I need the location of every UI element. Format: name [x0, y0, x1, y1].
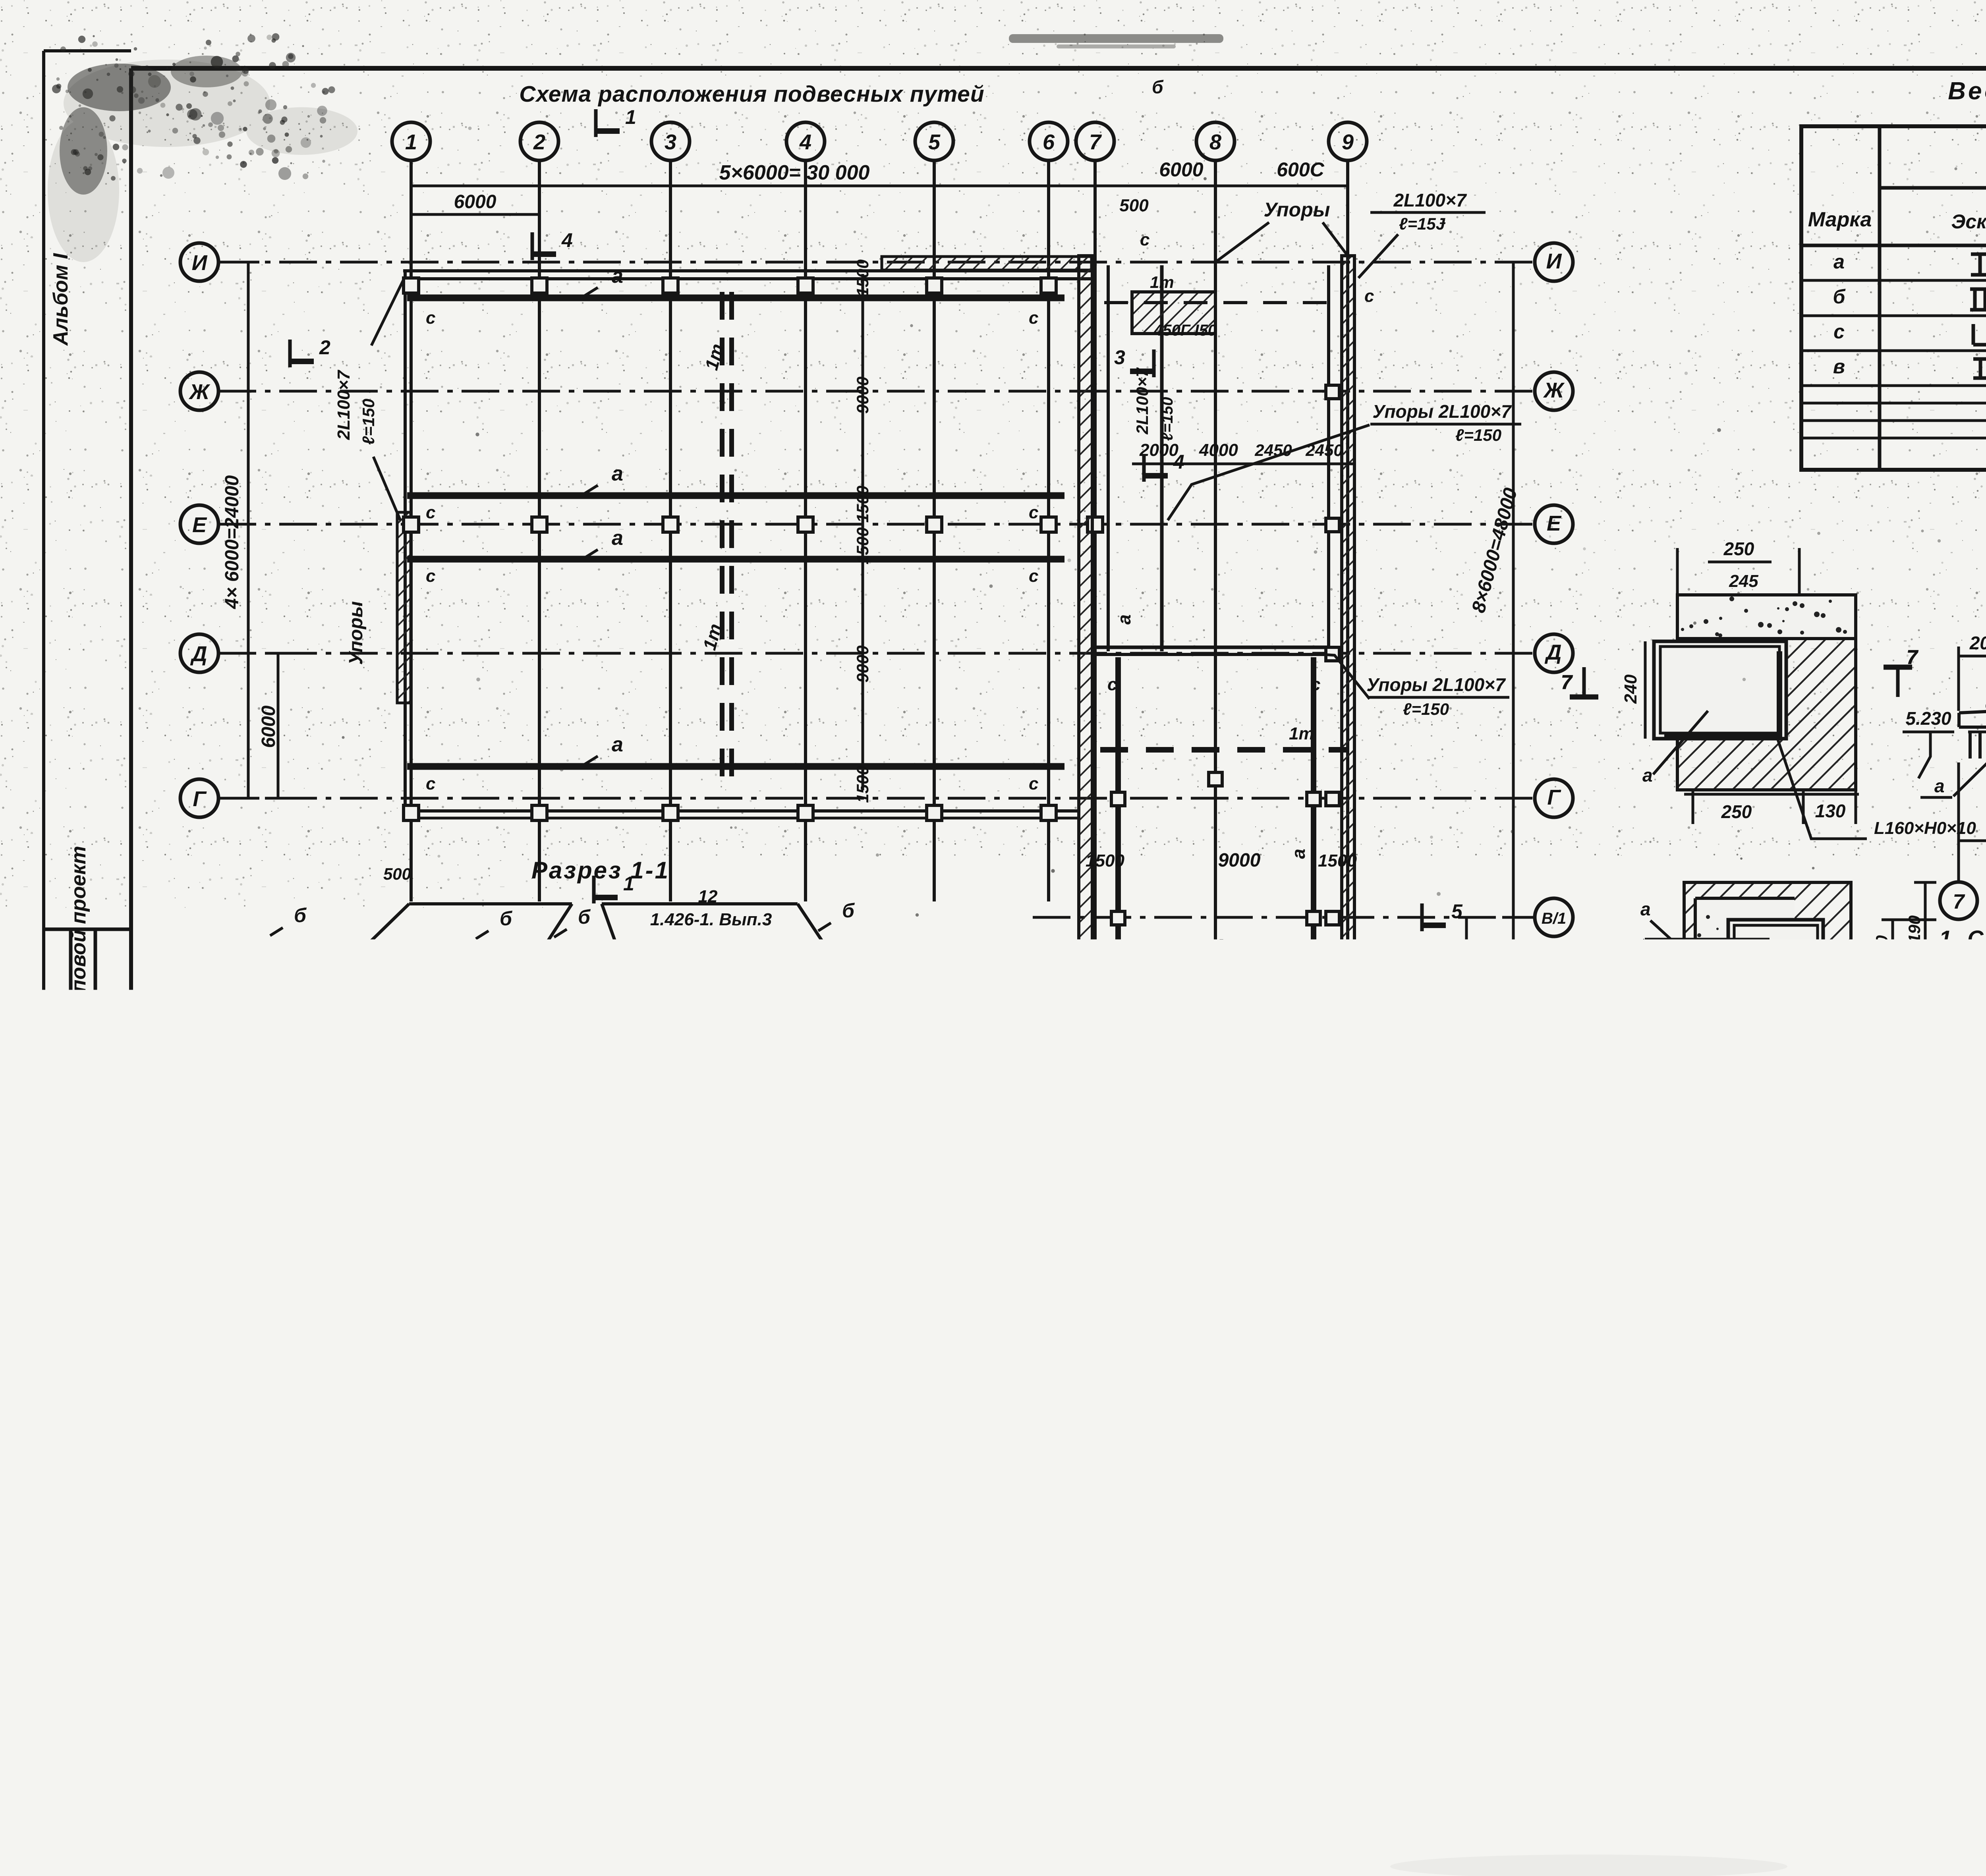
svg-text:4: 4 [615, 1469, 626, 1491]
svg-text:1. Сварку производить электро: 1. Сварку производить электродами Э-42 (… [1939, 926, 1986, 951]
svg-text:1500: 1500 [853, 259, 872, 296]
svg-text:б: б [1833, 286, 1846, 308]
svg-text:В/1: В/1 [1542, 910, 1566, 927]
svg-text:И: И [1268, 1804, 1283, 1825]
svg-text:9000: 9000 [853, 376, 872, 413]
svg-text:3: 3 [482, 1469, 493, 1491]
svg-text:7: 7 [1089, 130, 1102, 154]
svg-text:масляной краской за 2 раза.: масляной краской за 2 раза. (ГОСТ 695-77… [1958, 1198, 1986, 1223]
svg-text:7: 7 [1953, 890, 1965, 913]
svg-text:240: 240 [1621, 674, 1640, 704]
svg-text:3: 3 [186, 1687, 195, 1705]
svg-text:5×6000= 30 000: 5×6000= 30 000 [719, 161, 870, 184]
svg-text:Е: Е [778, 1795, 792, 1818]
svg-text:с: с [1833, 320, 1845, 343]
svg-text:Зурше: Зурше [46, 1132, 63, 1183]
svg-text:6000: 6000 [258, 705, 279, 748]
svg-text:2L100×7: 2L100×7 [334, 369, 354, 440]
svg-text:5×6000= 30000: 5×6000= 30000 [520, 1411, 654, 1432]
svg-text:9000: 9000 [1218, 850, 1261, 871]
svg-text:9000: 9000 [853, 645, 872, 682]
svg-text:а: а [1934, 776, 1945, 796]
svg-text:И: И [1546, 249, 1562, 273]
svg-text:1: 1 [214, 1469, 226, 1491]
svg-text:6: 6 [879, 1469, 891, 1491]
svg-text:СОГЛАСОВАНО: СОГЛАСОВАНО [46, 1234, 66, 1370]
svg-text:1500: 1500 [821, 1041, 858, 1060]
svg-text:Эскиз: Эскиз [1951, 210, 1986, 233]
svg-text:Н.контр.: Н.контр. [1815, 1686, 1883, 1705]
svg-text:с: с [1029, 308, 1038, 328]
svg-text:Схема расположения подвесных: Схема расположения подвесных путей [519, 81, 984, 107]
svg-text:9.420: 9.420 [320, 1254, 367, 1275]
svg-text:1500: 1500 [1700, 1300, 1739, 1319]
svg-text:а: а [457, 1294, 468, 1315]
svg-text:В: В [565, 1155, 580, 1178]
svg-text:1500: 1500 [1479, 1299, 1518, 1318]
svg-text:7.900: 7.900 [911, 1016, 957, 1036]
svg-text:1: 1 [642, 1319, 651, 1338]
svg-text:245: 245 [1729, 571, 1758, 591]
svg-text:1500: 1500 [310, 1041, 347, 1060]
svg-text:130: 130 [1815, 801, 1846, 821]
svg-text:100: 100 [264, 1662, 292, 1680]
svg-text:Кузнецов: Кузнецов [1893, 1748, 1974, 1768]
svg-text:Гриль: Гриль [71, 1166, 91, 1219]
svg-text:L160×Н0×10: L160×Н0×10 [1874, 818, 1976, 838]
svg-text:ОТД. ВГ: ОТД. ВГ [73, 1367, 90, 1430]
svg-text:ИНВ. № ПОДЛ.: ИНВ. № ПОДЛ. [97, 1657, 114, 1767]
svg-text:ГИП: ГИП [1819, 1749, 1853, 1767]
svg-text:500: 500 [1138, 1742, 1166, 1761]
svg-text:2: 2 [319, 336, 330, 359]
svg-text:1500 1500: 1500 1500 [540, 1041, 619, 1060]
svg-text:3: 3 [1114, 346, 1125, 369]
svg-text:Ж: Ж [1543, 378, 1565, 402]
svg-text:5.500: 5.500 [1358, 1418, 1406, 1439]
svg-text:с: с [657, 1587, 667, 1606]
svg-text:4× 6000=24000: 4× 6000=24000 [222, 475, 243, 610]
svg-text:1: 1 [625, 106, 636, 128]
svg-text:1.426-1. Вып.3: 1.426-1. Вып.3 [650, 910, 772, 929]
svg-text:б: б [1152, 77, 1164, 97]
svg-text:Е: Е [1547, 511, 1562, 535]
svg-text:700: 700 [904, 1681, 931, 1700]
svg-text:3: 3 [351, 1362, 360, 1381]
svg-text:ℓ=150: ℓ=150 [1159, 397, 1176, 441]
svg-text:Привязан: Привязан [1533, 1686, 1621, 1706]
svg-text:6000: 6000 [454, 191, 496, 212]
svg-text:б: б [734, 1256, 746, 1277]
svg-text:2: 2 [349, 1469, 361, 1491]
svg-text:5: 5 [1451, 900, 1463, 923]
svg-text:500: 500 [1410, 976, 1428, 1002]
svg-text:Разрез 5-5: Разрез 5-5 [1609, 1174, 1747, 1200]
svg-text:с: с [1311, 973, 1320, 993]
svg-text:поверхность подкрановых путе: поверхность подкрановых путей не окрашив… [1955, 1235, 1986, 1260]
svg-text:7: 7 [1473, 1659, 1485, 1681]
svg-text:с: с [290, 1593, 299, 1612]
svg-text:6000: 6000 [274, 1688, 315, 1708]
svg-text:с: с [426, 503, 435, 522]
svg-text:с: с [265, 1293, 275, 1312]
svg-text:4: 4 [799, 130, 811, 154]
svg-text:Д: Д [1545, 641, 1562, 664]
svg-text:5.230: 5.230 [745, 1667, 793, 1688]
svg-text:б: б [856, 1256, 868, 1277]
svg-text:Упоры: Упоры [1259, 1101, 1325, 1123]
svg-text:а: а [1642, 765, 1653, 786]
svg-text:в: в [1833, 355, 1845, 378]
svg-text:7: 7 [1907, 646, 1918, 668]
svg-text:4: 4 [1173, 451, 1184, 473]
svg-text:Нач.отд.: Нач.отд. [1812, 1790, 1880, 1809]
svg-text:7: 7 [892, 1515, 903, 1536]
svg-text:4. Все металлические констру: 4. Все металлические конструкции окрасит… [1941, 1160, 1986, 1185]
svg-text:250: 250 [1723, 538, 1754, 559]
svg-text:7: 7 [1561, 671, 1573, 693]
svg-text:Типовой проект: Типовой проект [67, 846, 90, 1017]
svg-text:hₗ = 6 мм.: hₗ = 6 мм. [1978, 965, 1986, 990]
svg-text:А/1: А/1 [1541, 1029, 1566, 1046]
svg-text:9: 9 [1342, 130, 1354, 154]
svg-text:200 300: 200 300 [821, 1380, 881, 1398]
svg-text:1500 1500: 1500 1500 [853, 486, 872, 565]
svg-text:Г: Г [193, 787, 207, 811]
svg-text:с: с [426, 774, 435, 793]
svg-text:6: 6 [1043, 130, 1055, 154]
svg-text:5: 5 [746, 1469, 757, 1491]
svg-text:9000: 9000 [423, 1038, 467, 1061]
svg-text:Ж: Ж [907, 1795, 928, 1818]
svg-text:1: 1 [591, 1680, 600, 1698]
svg-text:Шапиро: Шапиро [1893, 1769, 1963, 1788]
svg-text:ℓ=15Ɉ: ℓ=15Ɉ [1399, 214, 1446, 233]
svg-text:750: 750 [916, 1305, 935, 1333]
svg-text:ВЗАМ. ИНВ.№: ВЗАМ. ИНВ.№ [97, 1423, 114, 1529]
svg-text:3: 3 [1128, 1170, 1139, 1193]
svg-text:с: с [1029, 774, 1038, 793]
svg-text:Альбом I: Альбом I [49, 253, 72, 346]
svg-text:а: а [1288, 849, 1309, 859]
svg-text:500: 500 [624, 1380, 652, 1398]
svg-text:Д: Д [645, 1795, 662, 1818]
svg-text:б: б [578, 906, 591, 928]
svg-text:Ведомость элементов: Ведомость элементов [1948, 77, 1986, 105]
svg-text:5.230: 5.230 [1905, 708, 1951, 729]
svg-text:7.900: 7.900 [174, 1008, 221, 1029]
svg-text:а: а [713, 1003, 724, 1025]
svg-text:с: с [896, 1598, 905, 1617]
svg-text:а: а [612, 527, 623, 550]
svg-text:1: 1 [405, 130, 417, 154]
svg-text:ℓ=150: ℓ=150 [1455, 426, 1501, 444]
svg-text:Упоры 2L100×7: Упоры 2L100×7 [1372, 401, 1512, 422]
svg-text:б: б [842, 899, 855, 922]
svg-text:2: 2 [533, 130, 545, 154]
svg-text:4: 4 [561, 229, 573, 251]
svg-text:6000: 6000 [1171, 1767, 1212, 1788]
svg-text:300: 300 [1090, 1751, 1118, 1770]
svg-text:3.600: 3.600 [1309, 1600, 1356, 1621]
svg-text:б: б [798, 1542, 810, 1563]
svg-text:1500: 1500 [1318, 851, 1357, 870]
svg-text:600С: 600С [1277, 158, 1324, 181]
svg-text:Копировал: Корецкая: Копировал: Корецкая [1849, 1822, 1986, 1847]
svg-text:б: б [601, 1256, 613, 1277]
svg-text:7.900: 7.900 [524, 1365, 571, 1386]
svg-text:12000: 12000 [686, 1075, 744, 1098]
svg-text:а: а [1114, 614, 1134, 625]
svg-text:150: 150 [1872, 935, 1891, 963]
svg-text:в: в [1617, 1294, 1628, 1314]
svg-text:3.000: 3.000 [1339, 1635, 1387, 1656]
svg-text:1500: 1500 [853, 766, 872, 803]
svg-text:Д: Д [190, 642, 207, 666]
svg-text:Га.конст.: Га.конст. [1812, 1770, 1881, 1788]
svg-text:с: с [1364, 286, 1374, 306]
svg-text:1.426-1, Вып.3: 1.426-1, Вып.3 [1766, 1268, 1888, 1287]
svg-text:а: а [431, 1003, 442, 1025]
svg-text:Б/1: Б/1 [379, 1800, 402, 1817]
svg-text:Блайнина: Блайнина [1893, 1706, 1978, 1726]
svg-text:Е: Е [192, 513, 207, 537]
svg-text:3. Стыковые швы нижнего по: 3. Стыковые швы нижнего пояса балок зачи… [1944, 1083, 1986, 1108]
svg-text:а: а [457, 1584, 468, 1605]
svg-text:450Г I50: 450Г I50 [1153, 322, 1217, 339]
svg-text:500: 500 [383, 865, 411, 883]
svg-text:9000: 9000 [669, 1038, 713, 1061]
svg-text:3: 3 [665, 130, 676, 154]
svg-text:А: А [841, 1155, 857, 1178]
svg-text:Разрез 2-2: Разрез 2-2 [608, 1220, 746, 1246]
svg-text:700: 700 [655, 1681, 682, 1700]
svg-text:1500: 1500 [1086, 851, 1124, 870]
svg-text:б: б [294, 904, 307, 926]
svg-text:Петровнина: Петровнина [1889, 1728, 1986, 1747]
svg-text:а: а [612, 264, 623, 288]
svg-text:а: а [1617, 1391, 1628, 1412]
svg-text:5: 5 [928, 130, 941, 154]
svg-text:с: с [1140, 230, 1149, 249]
svg-text:Ж: Ж [1098, 1804, 1118, 1825]
svg-text:1020: 1020 [180, 1288, 199, 1325]
svg-text:150: 150 [1872, 989, 1891, 1017]
svg-text:190: 190 [1905, 915, 1924, 943]
svg-text:Г: Г [1547, 786, 1561, 809]
svg-text:б: б [500, 907, 513, 930]
svg-text:Г: Г [515, 1795, 528, 1818]
svg-text:ПН ЧЕ00404656: ПН ЧЕ00404656 [1211, 1851, 1354, 1867]
svg-text:Кузнецов: Кузнецов [1893, 1686, 1974, 1705]
svg-text:500: 500 [1119, 196, 1149, 215]
svg-text:2L100×7: 2L100×7 [1394, 1098, 1468, 1119]
svg-text:6.000: 6.000 [159, 1631, 207, 1652]
svg-text:с: с [1311, 675, 1320, 694]
svg-text:а: а [1640, 899, 1651, 919]
svg-text:1т: 1т [1289, 724, 1314, 743]
svg-text:Упоры: Упоры [1264, 199, 1330, 221]
svg-text:260: 260 [235, 961, 254, 989]
svg-text:2L100×7: 2L100×7 [1133, 367, 1151, 435]
svg-text:500: 500 [861, 1426, 891, 1446]
svg-text:6000: 6000 [1657, 1577, 1700, 1598]
svg-text:6000: 6000 [1524, 1577, 1567, 1598]
svg-text:а: а [711, 1596, 722, 1617]
svg-text:Разрез 1-1: Разрез 1-1 [531, 857, 670, 884]
svg-text:Разрез 6-6: Разрез 6-6 [1132, 1585, 1263, 1610]
svg-text:с: с [426, 308, 435, 328]
svg-text:12: 12 [1802, 1247, 1821, 1266]
svg-text:с: с [773, 1598, 782, 1617]
svg-text:ℓ=150: ℓ=150 [1407, 1125, 1453, 1143]
svg-text:12000: 12000 [408, 1075, 466, 1098]
svg-text:с: с [1107, 973, 1117, 993]
svg-text:а: а [612, 733, 623, 756]
svg-text:500: 500 [534, 1659, 562, 1677]
svg-text:2000: 2000 [1969, 633, 1986, 653]
svg-text:6000: 6000 [273, 1394, 314, 1415]
svg-text:1: 1 [1286, 1728, 1296, 1747]
svg-text:Болты нормальной точности. М: Болты нормальной точности. М16 (ГОСТ 779… [1974, 1043, 1986, 1068]
svg-text:с: с [1029, 503, 1038, 522]
svg-text:ℓ=150: ℓ=150 [359, 399, 378, 445]
svg-text:ИНВ. №: ИНВ. № [1530, 1793, 1591, 1810]
svg-text:с /: с / [755, 1317, 776, 1336]
svg-text:заподлицо с ездовой поверхнос: заподлицо с ездовой поверхностью балок. [1974, 1120, 1986, 1145]
svg-text:6000: 6000 [1443, 955, 1462, 994]
svg-text:А: А [304, 1155, 320, 1178]
svg-text:2L100×7: 2L100×7 [1393, 190, 1467, 210]
svg-text:ПОДПИСЬ И ДАТА: ПОДПИСЬ И ДАТА [97, 1524, 114, 1660]
svg-text:Упоры 2L100×7: Упоры 2L100×7 [1366, 674, 1506, 695]
svg-text:Ж: Ж [188, 380, 211, 404]
svg-text:4000: 4000 [1199, 440, 1238, 460]
svg-text:5.500: 5.500 [1741, 1413, 1789, 1434]
svg-text:5× 6000 = 30000: 5× 6000 = 30000 [608, 1720, 752, 1741]
svg-text:5: 5 [1184, 936, 1195, 958]
svg-text:Марка: Марка [1808, 208, 1872, 231]
svg-text:5.500: 5.500 [442, 1651, 489, 1672]
svg-text:а: а [612, 462, 623, 485]
svg-text:1т: 1т [1150, 273, 1174, 291]
svg-text:Разрез 3-3: Разрез 3-3 [611, 1527, 749, 1554]
svg-text:с: с [1107, 675, 1117, 694]
svg-text:190: 190 [1905, 1003, 1924, 1031]
svg-text:500: 500 [1193, 1723, 1222, 1743]
svg-text:Красавин: Красавин [1893, 1790, 1975, 1809]
svg-text:с: с [594, 1584, 603, 1604]
svg-text:ℓ=150: ℓ=150 [1403, 700, 1449, 718]
svg-text:250: 250 [1721, 801, 1752, 822]
svg-text:б: б [227, 1256, 239, 1277]
svg-text:А/1: А/1 [247, 1800, 271, 1817]
svg-text:а: а [1833, 251, 1845, 273]
svg-text:Ст.инж.: Ст.инж. [1813, 1728, 1874, 1747]
svg-text:2. Крепление подкранового пу: 2. Крепление подкранового пути – болтово… [1943, 1004, 1986, 1029]
svg-text:6000: 6000 [1159, 158, 1203, 181]
svg-text:8: 8 [1209, 130, 1221, 154]
svg-text:Пров.: Пров. [1819, 1707, 1866, 1725]
svg-text:с: с [1029, 566, 1038, 586]
svg-text:И: И [192, 251, 208, 275]
svg-text:Упоры: Упоры [346, 601, 367, 665]
svg-text:с: с [426, 566, 435, 586]
